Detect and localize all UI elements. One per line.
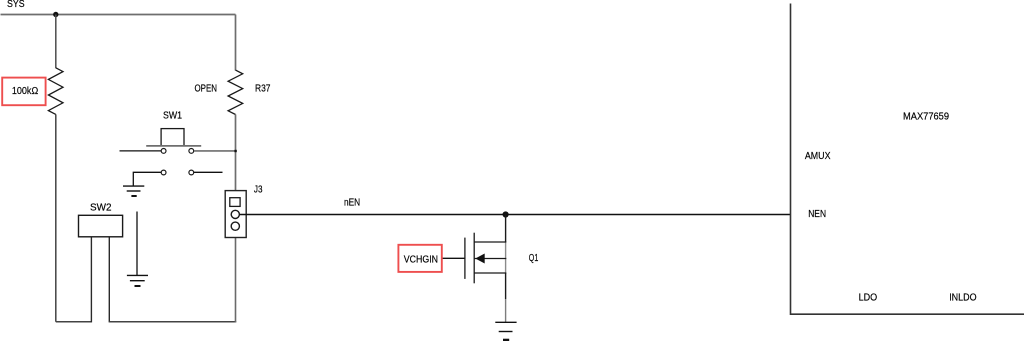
junction dot nEN/Q1	[503, 211, 509, 217]
wire SW2 left pin	[90, 237, 92, 323]
wire J3 bottom vertical	[235, 238, 237, 323]
wire SW1 pin1 left	[120, 150, 162, 152]
switch SW1 contact pin2	[189, 149, 194, 154]
svg-text:NEN: NEN	[808, 208, 826, 220]
wire SW1 pin4 stub	[194, 171, 223, 173]
switch SW1 actuator bar	[146, 145, 201, 147]
switch SW1 contact pin1	[161, 149, 166, 154]
wire R37 vertical lower to J3	[235, 115, 237, 191]
connector J3 pin1 square	[230, 198, 240, 207]
svg-text:LDO: LDO	[859, 291, 878, 303]
svg-text:Q1: Q1	[529, 252, 539, 264]
svg-text:SYS: SYS	[7, 0, 25, 10]
transistor Q1 channel bar	[473, 233, 475, 284]
switch SW1 button cap	[161, 129, 184, 146]
wire SYS top horizontal	[1, 14, 236, 16]
junction dot at SYS/R branch	[53, 12, 58, 17]
wire bottom left segment	[56, 321, 92, 323]
switch SW1 contact pin3	[161, 170, 166, 175]
wire bottom right segment	[109, 321, 236, 323]
wire Q1 source vertical	[505, 273, 507, 299]
transistor Q1 gate lead	[442, 257, 465, 259]
ground G3 (Q1 source)	[495, 322, 516, 340]
wire SW1 pin3 left	[133, 172, 161, 186]
wire Q1 drain vertical	[505, 215, 507, 243]
svg-text:nEN: nEN	[344, 197, 360, 209]
wire R37 vertical upper	[235, 15, 237, 71]
transistor Q1 drain stub	[474, 241, 506, 243]
wire stub to ground G2	[136, 212, 138, 276]
resistor R37 zigzag	[228, 70, 243, 114]
wire nEN net	[240, 214, 791, 216]
svg-text:OPEN: OPEN	[195, 83, 218, 95]
transistor Q1 gate bar	[464, 238, 466, 279]
value label 100kOhm red box	[2, 78, 45, 106]
svg-text:R37: R37	[255, 83, 271, 95]
wire SW2 right pin	[108, 237, 110, 323]
connector J3 pin2 circle	[231, 210, 239, 218]
transistor Q1 body arrow	[475, 254, 484, 264]
wire SW1 pin2 to R37 net	[194, 150, 236, 152]
wire Q1 drain-source link	[505, 242, 507, 273]
svg-text:INLDO: INLDO	[949, 291, 976, 303]
svg-text:100kΩ: 100kΩ	[12, 85, 38, 97]
IC U1 MAX77659 outline (partial)	[791, 4, 1024, 315]
svg-text:MAX77659: MAX77659	[903, 110, 949, 122]
ground G1 (SW1 pin3)	[123, 186, 144, 196]
junction at R37 net	[234, 150, 236, 152]
svg-text:SW1: SW1	[163, 109, 182, 121]
resistor 100k zigzag	[48, 68, 63, 115]
svg-text:J3: J3	[254, 184, 263, 196]
wire Q1 source to ground	[505, 299, 507, 322]
svg-text:VCHGIN: VCHGIN	[404, 254, 438, 266]
ground G2	[127, 275, 148, 286]
net label VCHGIN red box	[398, 245, 441, 272]
transistor Q1 body stub	[474, 258, 506, 260]
wire left vertical lower	[55, 114, 57, 321]
svg-text:AMUX: AMUX	[805, 150, 831, 162]
connector J3 outline	[225, 191, 246, 238]
transistor Q1 source stub	[474, 272, 506, 274]
svg-text:SW2: SW2	[90, 202, 112, 214]
wire left vertical upper	[55, 15, 57, 69]
switch SW1 contact pin4	[189, 170, 194, 175]
switch SW2 body	[79, 215, 123, 237]
connector J3 pin3 circle	[231, 222, 239, 230]
